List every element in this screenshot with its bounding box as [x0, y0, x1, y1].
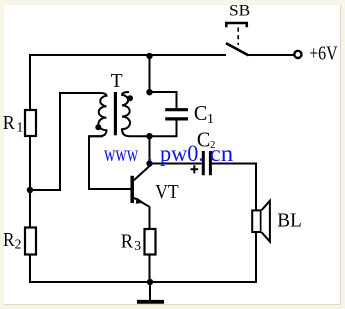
wire primary bottom to base	[89, 136, 131, 189]
wire emitter to R3 to bottom	[149, 207, 151, 282]
svg-text:C: C	[194, 101, 208, 125]
+6V terminal circle	[294, 51, 301, 58]
junction node secondary bottom	[146, 133, 152, 139]
resistor R3	[145, 229, 156, 255]
svg-text:1: 1	[16, 121, 23, 136]
speaker BL cone	[262, 201, 270, 242]
wire ground stub	[149, 282, 151, 300]
svg-text:BL: BL	[277, 210, 302, 232]
svg-text:2: 2	[15, 237, 22, 252]
svg-text:SB: SB	[229, 2, 250, 19]
svg-text:T: T	[111, 70, 123, 92]
resistor R2	[25, 228, 36, 255]
svg-text:pw0.: pw0.	[160, 141, 204, 167]
junction node top	[146, 53, 152, 59]
junction node secondary top	[146, 89, 152, 95]
transformer T primary winding	[89, 93, 106, 136]
svg-text:www: www	[104, 141, 138, 167]
switch SB dashed stem	[237, 28, 239, 46]
junction node R1 R2	[27, 187, 33, 193]
transistor VT emitter lead	[134, 198, 150, 207]
wire collector node to C2	[150, 163, 202, 165]
svg-text:R: R	[3, 230, 15, 251]
speaker BL driver rect	[252, 210, 261, 232]
transformer T core bar	[114, 92, 117, 135]
junction node collector / C2	[146, 160, 152, 166]
capacitor C2 plates	[203, 151, 210, 175]
svg-text:1: 1	[207, 112, 214, 127]
ground bar	[137, 300, 164, 304]
svg-text:R: R	[121, 231, 134, 253]
transistor VT base bar	[130, 176, 134, 203]
svg-text:R: R	[3, 112, 16, 134]
svg-text:cn: cn	[210, 141, 234, 167]
wire secondary top node to C1 top	[150, 92, 177, 108]
transformer polarity dot primary	[95, 124, 101, 130]
wire R1R2 junction to primary top	[30, 93, 100, 190]
wire C2 to speaker branch corner	[212, 163, 257, 165]
svg-text:VT: VT	[155, 181, 179, 203]
transformer polarity dot secondary	[127, 95, 133, 101]
resistor R1	[25, 110, 36, 136]
capacitor C2 plus sign	[191, 165, 199, 173]
watermark www.	[104, 141, 234, 167]
wire top junction down to secondary top node	[149, 56, 151, 92]
transistor VT emitter arrow	[136, 198, 144, 204]
wire secondary bottom node down to collector node	[149, 136, 151, 167]
junction node ground	[147, 279, 153, 285]
wire switch to +6V terminal	[248, 54, 295, 56]
capacitor C1 plates	[165, 110, 188, 119]
wire outer loop: top rail, left rail, bottom rail, speaker rail	[30, 55, 256, 282]
switch SB push cap	[226, 23, 247, 27]
svg-text:3: 3	[134, 238, 141, 253]
svg-text:+6V: +6V	[309, 43, 338, 65]
wire C1 bottom to secondary bottom node	[150, 120, 177, 136]
switch SB blade	[226, 43, 249, 55]
transformer T secondary winding	[122, 92, 150, 136]
transistor VT collector lead	[134, 166, 150, 180]
svg-text:.: .	[147, 141, 153, 167]
